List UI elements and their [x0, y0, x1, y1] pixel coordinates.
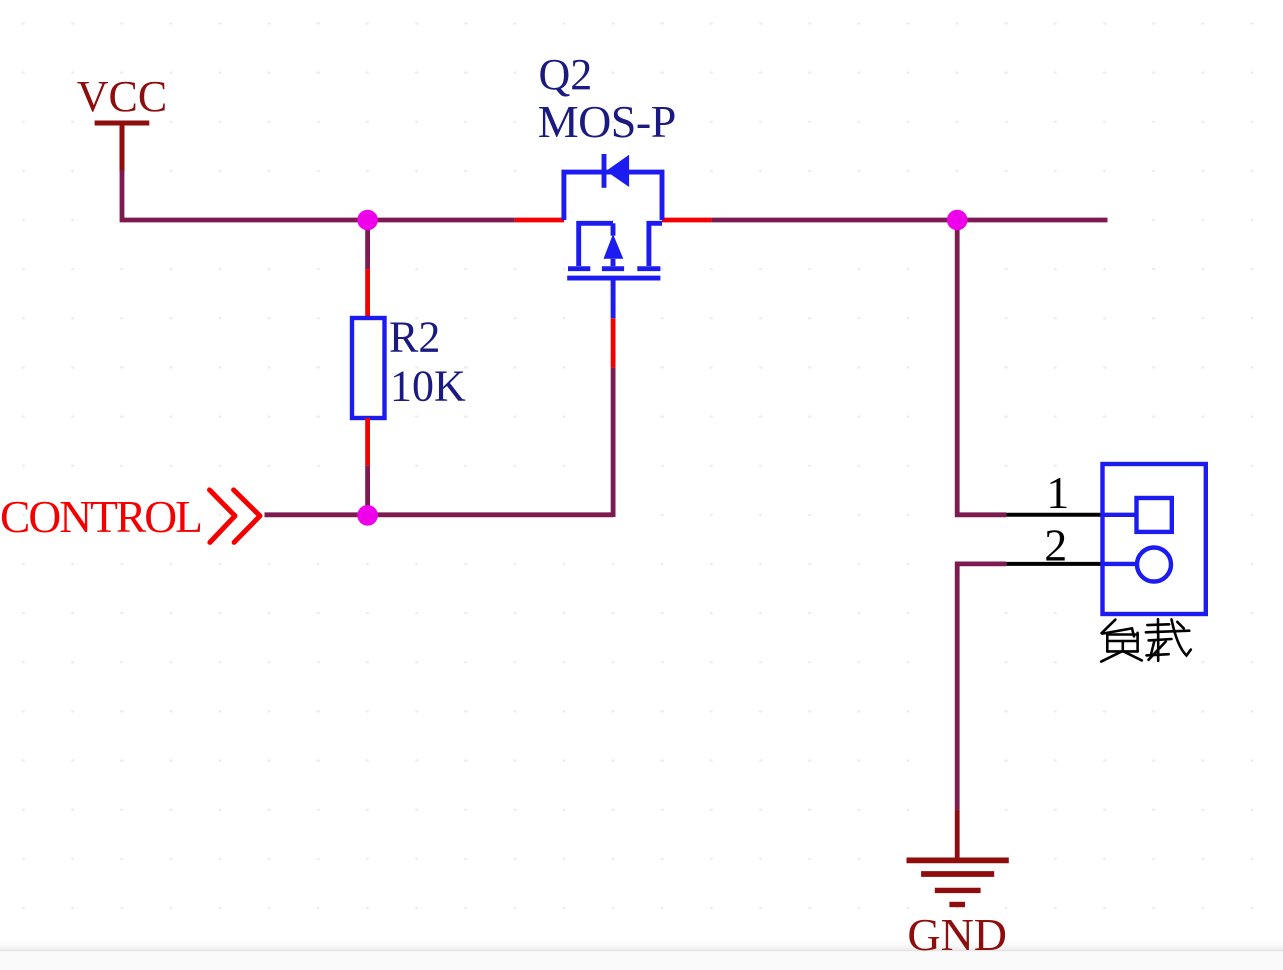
connector pin 1 square pad	[1104, 498, 1172, 532]
junction A (main rail / R2)	[357, 210, 378, 231]
pin Q2 gate (red)	[611, 318, 616, 367]
wire gate corner up	[611, 367, 616, 517]
junction C (CONTROL / R2)	[357, 505, 378, 526]
diode arrow of Q2 body diode	[606, 155, 629, 187]
port CONTROL chevron	[210, 490, 261, 543]
wire CONTROL to junction C to gate corner	[265, 512, 614, 517]
svg-text:R2: R2	[389, 313, 440, 362]
connector pin 2 round pad	[1104, 548, 1171, 582]
pin 2 line of connector (black)	[1006, 562, 1102, 566]
wire junction A down to R2 top	[365, 220, 370, 269]
wire junction B down to connector pin 1	[957, 220, 1006, 515]
pin 1 line of connector (black)	[1006, 513, 1102, 517]
svg-text:MOS-P: MOS-P	[538, 96, 676, 147]
svg-text:GND: GND	[907, 909, 1007, 960]
label 载 (load char 2) drawn strokes	[1146, 619, 1191, 661]
svg-text:2: 2	[1044, 519, 1067, 570]
svg-text:1: 1	[1046, 467, 1069, 518]
junction B (main rail / load branch)	[947, 210, 968, 231]
svg-text:VCC: VCC	[77, 72, 167, 121]
svg-text:10K: 10K	[390, 362, 466, 411]
label 负 (load char 1) drawn strokes	[1101, 620, 1142, 662]
svg-text:CONTROL: CONTROL	[0, 491, 201, 542]
wire main rail junction A to junction B to end	[711, 218, 1107, 223]
ground GND symbol	[907, 810, 1009, 905]
bottom panel divider line	[0, 950, 1283, 952]
pin R2 top (red)	[365, 269, 370, 318]
bottom panel edge shadow	[0, 938, 1283, 950]
wire main rail y=220 left red pin of Q2	[515, 218, 564, 223]
svg-text:Q2: Q2	[539, 50, 593, 99]
power symbol VCC	[95, 123, 150, 172]
connector J1 body	[1103, 464, 1206, 614]
wire R2 bottom to junction C	[365, 466, 370, 515]
transistor Q2 (MOS-P symbol)	[564, 154, 662, 318]
body diode loop	[564, 172, 662, 220]
bottom panel area	[0, 951, 1283, 970]
wire VCC to junction A (main rail left)	[122, 170, 515, 220]
wire main rail right red pin of Q2	[662, 218, 711, 223]
substrate arrow of Q2	[604, 234, 624, 259]
wire connector pin 2 down to GND	[957, 564, 1006, 810]
pin R2 bottom (red)	[365, 418, 370, 466]
resistor R2 body	[352, 318, 385, 418]
